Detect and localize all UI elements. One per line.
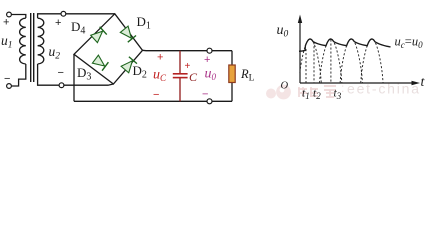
capacitor C plates	[173, 73, 188, 75]
diode D2	[121, 61, 132, 73]
transformer primary terminal top	[7, 12, 12, 17]
svg-text:−: −	[202, 89, 208, 101]
svg-text:C: C	[189, 70, 198, 84]
solid envelope curve	[299, 39, 391, 51]
wire left vertex down	[73, 54, 75, 101]
svg-text:O: O	[281, 81, 289, 92]
diode D1	[120, 26, 131, 38]
svg-text:+: +	[204, 54, 210, 66]
svg-text:+: +	[55, 17, 61, 29]
wire	[11, 15, 25, 19]
dashed vertical t2	[313, 42, 315, 83]
transformer core	[30, 13, 32, 82]
graph x-axis	[300, 82, 413, 84]
output terminal top	[207, 48, 212, 53]
top rail	[143, 49, 233, 51]
diode D3	[92, 55, 104, 66]
secondary terminal bottom	[59, 83, 64, 88]
bottom rail	[74, 100, 232, 102]
secondary terminal top	[61, 11, 66, 16]
resistor RL	[229, 65, 235, 83]
svg-text:−: −	[153, 89, 159, 101]
watermark chinese chars	[298, 86, 336, 97]
svg-text:+: +	[157, 52, 163, 64]
dashed vertical t1	[305, 49, 307, 83]
transformer primary terminal bottom	[7, 84, 12, 89]
svg-text:+: +	[3, 17, 9, 29]
watermark icon	[266, 85, 291, 100]
wire secondary top to bridge top vertex	[38, 14, 115, 18]
secondary winding	[38, 18, 44, 64]
svg-text:−: −	[58, 67, 64, 79]
primary winding	[20, 18, 26, 64]
capacitor C leads	[179, 51, 181, 73]
bridge diamond edges	[74, 14, 143, 84]
diode D4	[91, 31, 103, 42]
wire secondary bottom to bridge bottom vertex	[38, 64, 114, 85]
wire primary bottom	[11, 64, 25, 86]
output terminal bottom	[207, 99, 212, 104]
wire RL branch	[231, 51, 233, 65]
dashed vertical t3	[330, 40, 332, 84]
dashed sine humps	[300, 39, 383, 83]
graph y-axis	[299, 21, 301, 83]
